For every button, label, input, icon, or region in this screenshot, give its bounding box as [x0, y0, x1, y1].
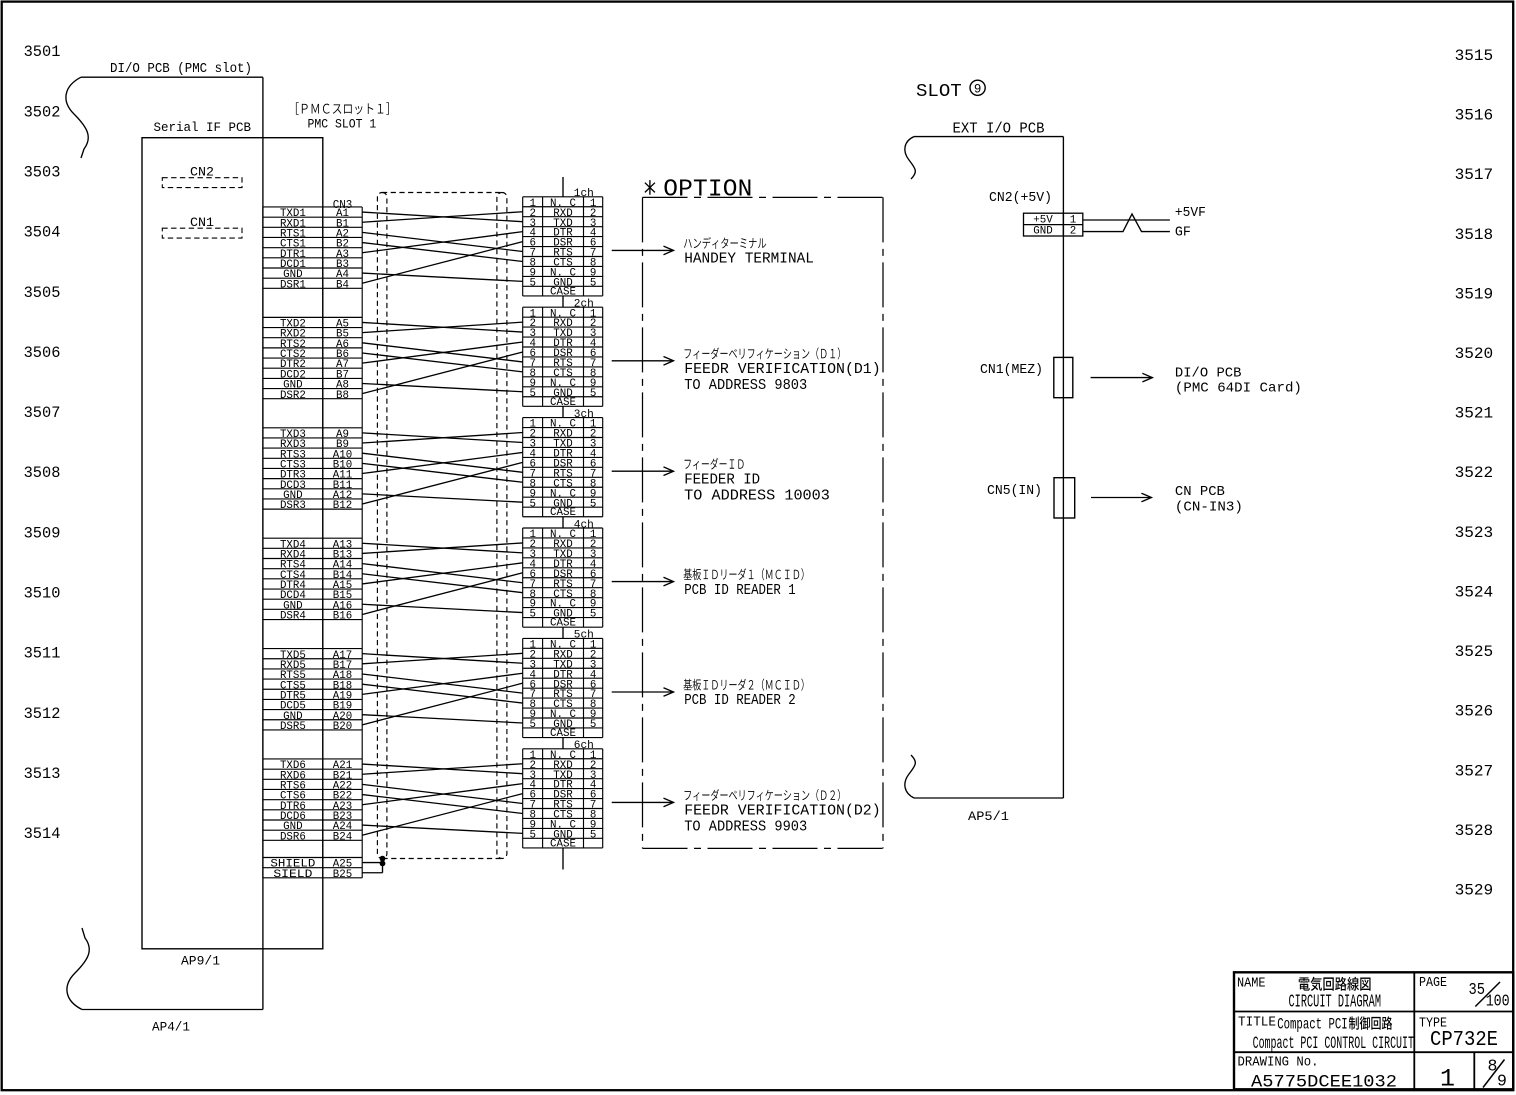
svg-text:Compact PCI: Compact PCI — [1277, 1015, 1348, 1033]
wire RXD1 CN3 to 1ch pin — [362, 212, 523, 223]
wire RXD5 CN3 to 5ch pin — [362, 653, 523, 664]
svg-text:5: 5 — [529, 829, 535, 841]
wire DSR5 CN3 to 5ch pin — [362, 683, 523, 725]
svg-text:DSR6: DSR6 — [280, 831, 306, 843]
svg-text:3520: 3520 — [1455, 345, 1494, 363]
svg-text:3511: 3511 — [24, 645, 61, 663]
svg-text:1: 1 — [1070, 214, 1076, 226]
svg-text:3501: 3501 — [24, 43, 61, 61]
svg-text:3504: 3504 — [24, 224, 61, 242]
svg-text:5: 5 — [529, 277, 535, 289]
svg-text:3512: 3512 — [24, 705, 61, 723]
svg-text:GF: GF — [1175, 225, 1191, 241]
connector 1ch pin table — [523, 197, 603, 296]
wire CTS5 CN3 to 5ch pin — [362, 684, 523, 703]
svg-text:CIRCUIT DIAGRAM: CIRCUIT DIAGRAM — [1289, 993, 1382, 1013]
svg-text:5: 5 — [529, 498, 535, 510]
wire stub between 5ch and 6ch — [562, 738, 564, 749]
wire stub between 2ch and 3ch — [562, 406, 564, 417]
svg-text:3521: 3521 — [1455, 405, 1494, 423]
CN3 pin labels — [270, 208, 352, 881]
wire GND3 CN3 to 3ch pin — [362, 494, 523, 502]
OPTION area box (dash-dot) — [643, 197, 884, 848]
svg-text:5: 5 — [590, 498, 596, 510]
svg-text:B8: B8 — [336, 390, 349, 402]
arrow CN5(IN) to CN PCB — [1091, 497, 1151, 499]
label option device 6 (Japanese) — [685, 789, 840, 801]
label option device 2 (Japanese) — [685, 347, 840, 359]
svg-text:5: 5 — [590, 609, 596, 621]
arrow to option device 4 — [612, 581, 674, 583]
svg-text:B25: B25 — [333, 869, 352, 881]
wire stub between 3ch and 4ch — [562, 517, 564, 528]
wire SHIELD A25 — [362, 862, 382, 864]
svg-text:3ch: 3ch — [574, 409, 594, 421]
svg-text:8: 8 — [1488, 1057, 1498, 1076]
wire RTS3 CN3 to 3ch pin — [362, 453, 523, 472]
wire RXD3 CN3 to 3ch pin — [362, 433, 523, 443]
wire stub above 1ch — [562, 177, 564, 197]
svg-text:+5V: +5V — [1033, 214, 1053, 226]
svg-text:3517: 3517 — [1455, 166, 1494, 184]
svg-text:A5775DCEE1032: A5775DCEE1032 — [1251, 1073, 1397, 1093]
title block — [1234, 972, 1513, 1089]
wire DTR5 CN3 to 5ch pin — [362, 673, 523, 694]
svg-text:9: 9 — [1497, 1072, 1507, 1091]
wire RTS1 CN3 to 1ch pin — [362, 232, 523, 251]
svg-text:3522: 3522 — [1455, 464, 1494, 482]
svg-text:3529: 3529 — [1455, 882, 1494, 900]
svg-text:FEEDR VERIFICATION(D1): FEEDR VERIFICATION(D1) — [684, 361, 881, 378]
label option device 5 (Japanese) — [684, 679, 804, 691]
wire TXD2 CN3 to 2ch pin — [362, 322, 523, 332]
wire TXD6 CN3 to 6ch pin — [362, 764, 523, 774]
Serial IF PCB board outline — [142, 138, 323, 949]
wire RXD6 CN3 to 6ch pin — [362, 764, 523, 775]
connector 4ch pin table — [523, 528, 603, 627]
svg-text:SIELD: SIELD — [273, 869, 312, 881]
svg-text:PCB ID READER 2: PCB ID READER 2 — [684, 692, 796, 709]
junction dots on shield wire — [380, 856, 386, 862]
svg-text:3523: 3523 — [1455, 524, 1494, 542]
svg-text:GND: GND — [1033, 226, 1052, 238]
wire stub below 6ch — [562, 848, 564, 870]
connector 3ch pin table — [523, 418, 603, 517]
circled 9 — [970, 80, 985, 95]
wire GND2 CN3 to 2ch pin — [362, 383, 523, 391]
arrow to option device 6 — [612, 801, 674, 803]
connector CN1(MEZ) — [1054, 357, 1073, 397]
svg-text:SLOT: SLOT — [916, 82, 962, 102]
EXT I/O PCB board outline — [905, 137, 1064, 798]
wire GND pin2 to GF (with crossover hop) — [1083, 214, 1170, 232]
svg-text:100: 100 — [1486, 992, 1510, 1011]
svg-text:DSR2: DSR2 — [280, 390, 306, 402]
wire GND1 CN3 to 1ch pin — [362, 273, 523, 281]
connector CN2(+5V) pin table — [1024, 213, 1083, 236]
svg-text:35: 35 — [1469, 980, 1486, 999]
svg-text:AP4/1: AP4/1 — [152, 1020, 190, 1035]
svg-text:3519: 3519 — [1455, 285, 1494, 303]
svg-text:PMC SLOT 1: PMC SLOT 1 — [308, 118, 377, 132]
wire RTS6 CN3 to 6ch pin — [362, 784, 523, 803]
svg-text:2: 2 — [1070, 226, 1076, 238]
wire CTS6 CN3 to 6ch pin — [362, 795, 523, 814]
svg-text:NAME: NAME — [1237, 975, 1266, 991]
arrow to option device 2 — [612, 360, 674, 362]
svg-text:DI/O PCB: DI/O PCB — [1175, 365, 1242, 381]
svg-text:3513: 3513 — [24, 765, 61, 783]
label PMC slot 1 (Japanese) — [296, 102, 389, 114]
connector 5ch pin table — [523, 638, 603, 737]
svg-text:Compact PCI CONTROL CIRCUIT: Compact PCI CONTROL CIRCUIT — [1253, 1034, 1414, 1054]
svg-text:5ch: 5ch — [574, 630, 594, 642]
wire GND5 CN3 to 5ch pin — [362, 715, 523, 723]
label OPTION — [645, 180, 655, 195]
svg-text:PCB ID READER 1: PCB ID READER 1 — [684, 582, 796, 599]
arrow to option device 5 — [612, 691, 674, 693]
wire DSR6 CN3 to 6ch pin — [362, 794, 523, 836]
svg-text:EXT I/O PCB: EXT I/O PCB — [953, 121, 1045, 137]
wire GND6 CN3 to 6ch pin — [362, 825, 523, 833]
DI/O PCB (PMC slot) board outline — [66, 77, 263, 1009]
svg-text:DRAWING No.: DRAWING No. — [1238, 1055, 1319, 1071]
svg-text:FEEDR VERIFICATION(D2): FEEDR VERIFICATION(D2) — [684, 803, 881, 820]
connector 2ch pin table — [523, 307, 603, 406]
wire DSR4 CN3 to 4ch pin — [362, 573, 523, 615]
svg-text:DI/O PCB (PMC slot): DI/O PCB (PMC slot) — [110, 62, 252, 77]
svg-text:CN5(IN): CN5(IN) — [987, 483, 1042, 499]
svg-text:+5VF: +5VF — [1175, 205, 1206, 221]
arrow CN1(MEZ) to DI/O PCB — [1091, 377, 1153, 379]
svg-text:(CN-IN3): (CN-IN3) — [1175, 499, 1243, 515]
wire RXD4 CN3 to 4ch pin — [362, 543, 523, 554]
svg-text:DSR1: DSR1 — [280, 279, 306, 291]
svg-text:3503: 3503 — [24, 164, 61, 182]
wire DTR6 CN3 to 6ch pin — [362, 784, 523, 805]
svg-text:TO ADDRESS 9803: TO ADDRESS 9803 — [684, 377, 807, 394]
svg-text:CP732E: CP732E — [1430, 1029, 1498, 1052]
wire DSR3 CN3 to 3ch pin — [362, 462, 523, 504]
svg-text:TO ADDRESS 9903: TO ADDRESS 9903 — [684, 819, 807, 836]
wire RTS4 CN3 to 4ch pin — [362, 564, 523, 583]
svg-text:3510: 3510 — [24, 585, 61, 603]
arrow to option device 3 — [612, 470, 674, 472]
svg-text:CN2(+5V): CN2(+5V) — [989, 191, 1052, 206]
svg-text:AP9/1: AP9/1 — [181, 954, 220, 969]
svg-text:3506: 3506 — [24, 344, 61, 362]
svg-text:DSR4: DSR4 — [280, 611, 306, 623]
wire DTR2 CN3 to 2ch pin — [362, 342, 523, 363]
wire SIELD B25 — [362, 872, 382, 874]
svg-text:DSR5: DSR5 — [280, 721, 306, 733]
wire DTR3 CN3 to 3ch pin — [362, 452, 523, 473]
connector 6ch pin table — [523, 749, 603, 848]
svg-text:5: 5 — [529, 609, 535, 621]
left margin line numbers 3501-3514 — [24, 43, 61, 843]
label option device 4 (Japanese) — [684, 568, 804, 580]
svg-text:OPTION: OPTION — [663, 176, 752, 203]
right margin line numbers 3515-3529 — [1455, 47, 1494, 900]
svg-text:6ch: 6ch — [574, 740, 594, 752]
wire stub between 1ch and 2ch — [562, 296, 564, 307]
wire RTS5 CN3 to 5ch pin — [362, 674, 523, 693]
svg-text:(PMC 64DI Card): (PMC 64DI Card) — [1175, 381, 1302, 397]
wire TXD1 CN3 to 1ch pin — [362, 212, 523, 222]
arrow to option device 1 — [612, 249, 674, 251]
svg-text:3518: 3518 — [1455, 226, 1494, 244]
svg-text:5: 5 — [590, 719, 596, 731]
svg-text:B4: B4 — [336, 279, 349, 291]
wire CTS1 CN3 to 1ch pin — [362, 243, 523, 262]
svg-text:1ch: 1ch — [574, 188, 594, 200]
wire TXD3 CN3 to 3ch pin — [362, 433, 523, 443]
svg-text:CN1(MEZ): CN1(MEZ) — [980, 362, 1043, 378]
connector CN5(IN) — [1054, 478, 1075, 518]
svg-text:TO ADDRESS 10003: TO ADDRESS 10003 — [684, 487, 830, 504]
svg-text:3525: 3525 — [1455, 643, 1494, 661]
svg-text:5: 5 — [590, 277, 596, 289]
cable shell outline (dashed) — [377, 193, 387, 859]
svg-text:3502: 3502 — [24, 103, 61, 121]
svg-text:HANDEY TERMINAL: HANDEY TERMINAL — [684, 251, 814, 268]
svg-text:PAGE: PAGE — [1419, 975, 1447, 991]
svg-text:Serial IF PCB: Serial IF PCB — [154, 120, 252, 135]
wire CTS4 CN3 to 4ch pin — [362, 574, 523, 593]
wire DTR4 CN3 to 4ch pin — [362, 563, 523, 584]
svg-text:5: 5 — [590, 829, 596, 841]
svg-text:B20: B20 — [333, 721, 352, 733]
svg-text:3507: 3507 — [24, 404, 61, 422]
wire RXD2 CN3 to 2ch pin — [362, 322, 523, 332]
wire CTS3 CN3 to 3ch pin — [362, 463, 523, 482]
svg-text:B16: B16 — [333, 611, 352, 623]
wire CTS2 CN3 to 2ch pin — [362, 353, 523, 372]
svg-text:CN PCB: CN PCB — [1175, 484, 1225, 500]
wire +5V pin1 to +5VF — [1083, 219, 1170, 221]
svg-text:DSR3: DSR3 — [280, 500, 306, 512]
svg-text:3515: 3515 — [1455, 47, 1494, 65]
label option device 3 (Japanese) — [685, 458, 744, 470]
svg-text:5: 5 — [529, 719, 535, 731]
svg-text:TITLE: TITLE — [1238, 1014, 1276, 1030]
svg-text:B24: B24 — [333, 831, 352, 843]
svg-text:3527: 3527 — [1455, 762, 1494, 780]
svg-text:5: 5 — [590, 388, 596, 400]
svg-text:3509: 3509 — [24, 524, 61, 542]
wire TXD4 CN3 to 4ch pin — [362, 543, 523, 553]
wire TXD5 CN3 to 5ch pin — [362, 654, 523, 664]
wire DSR1 CN3 to 1ch pin — [362, 242, 523, 284]
svg-text:9: 9 — [974, 82, 982, 96]
wire RTS2 CN3 to 2ch pin — [362, 343, 523, 362]
svg-text:3508: 3508 — [24, 464, 61, 482]
svg-text:FEEDER ID: FEEDER ID — [684, 471, 760, 488]
svg-text:3526: 3526 — [1455, 703, 1494, 721]
svg-text:2ch: 2ch — [574, 299, 594, 311]
svg-text:AP5/1: AP5/1 — [968, 809, 1009, 824]
svg-text:4ch: 4ch — [574, 519, 594, 531]
svg-text:3505: 3505 — [24, 284, 61, 302]
svg-text:5: 5 — [529, 388, 535, 400]
label option device 1 (Japanese) — [684, 237, 766, 249]
svg-text:3528: 3528 — [1455, 822, 1494, 840]
wire GND4 CN3 to 4ch pin — [362, 604, 523, 612]
svg-text:B12: B12 — [333, 500, 352, 512]
svg-text:1: 1 — [1440, 1065, 1455, 1094]
svg-text:3516: 3516 — [1455, 107, 1494, 125]
wire stub between 4ch and 5ch — [562, 627, 564, 638]
svg-text:3524: 3524 — [1455, 584, 1494, 602]
wire DTR1 CN3 to 1ch pin — [362, 232, 523, 253]
svg-text:3514: 3514 — [24, 825, 61, 843]
wire DSR2 CN3 to 2ch pin — [362, 352, 523, 394]
connector CN3 pin table — [263, 207, 362, 878]
